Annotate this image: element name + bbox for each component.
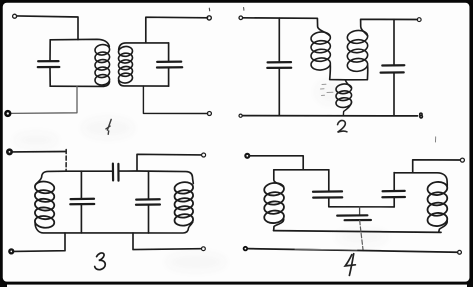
terminal T10 (circuit 3 output top) xyxy=(202,153,206,157)
graphite smudge near shunt coil xyxy=(321,84,334,95)
terminal T8 (circuit 2 output bottom, inked blob) xyxy=(420,113,423,118)
tank2 right branch lower xyxy=(168,68,170,86)
terminal T9 (circuit 3 input top) xyxy=(7,150,11,154)
capacitor C4 lead xyxy=(393,20,395,65)
coupling capacitor C5 plate2 xyxy=(117,164,119,181)
capacitor C6 plate2 xyxy=(70,203,94,205)
capacitor C1 plate2 xyxy=(38,66,60,68)
ground rail double-stroke xyxy=(295,248,357,251)
wire T10 down xyxy=(137,154,201,171)
tank4 common bottom edge xyxy=(274,231,441,233)
terminal T16 (circuit 4 output bottom) xyxy=(458,250,462,254)
terminal T2 (circuit 1 input bottom) xyxy=(5,111,10,116)
inductor L4 (series coil B) xyxy=(347,29,369,72)
capacitor C6 lead lower xyxy=(80,204,82,233)
terminal T15 (circuit 4 input bottom) xyxy=(244,247,248,251)
wire tank1 to bottom terminal xyxy=(11,86,77,113)
ink fleck above T5 xyxy=(243,8,245,11)
tank3 top edge left xyxy=(36,171,66,184)
wire tank3 to T12 xyxy=(133,233,201,250)
wire T13 to tank4a xyxy=(250,156,303,170)
capacitor C1 plate1 xyxy=(38,60,58,62)
ink fleck above T3 xyxy=(208,8,210,11)
capacitor C6 lead xyxy=(80,171,82,198)
tank1 left branch lower xyxy=(49,67,51,86)
circuit 4 ground rail xyxy=(247,249,457,253)
capacitor C9 plate2 xyxy=(382,196,405,198)
capacitor C4 lead lower xyxy=(393,73,395,116)
tank4b coil to bottom xyxy=(439,221,447,232)
capacitor C3 lead lower xyxy=(278,68,280,115)
wire T5 to coil LA xyxy=(243,18,330,36)
wire coilC to rail xyxy=(343,102,351,116)
capacitor C2 plate1 xyxy=(157,60,181,63)
tank4b top edge xyxy=(394,173,447,187)
faint scan wash marks xyxy=(14,80,388,271)
label 3 xyxy=(95,253,106,270)
label 1 xyxy=(106,119,111,134)
capacitor C9 lead lower xyxy=(393,198,395,207)
inductor L6 (tank3 left coil) xyxy=(34,181,55,229)
wire T6 to coil LB xyxy=(361,19,418,35)
capacitor C3 plate2 xyxy=(267,67,291,69)
terminal T4 (circuit 1 output bottom) xyxy=(207,112,211,116)
terminal T6 (circuit 2 output top) xyxy=(417,18,421,22)
inductor L8 (tank4a coil) xyxy=(264,182,285,224)
capacitor C4 plate2 xyxy=(381,71,404,73)
wire T1 to tank1 top xyxy=(17,16,78,40)
tank2 bottom edge xyxy=(119,80,169,86)
tank3 top edge right xyxy=(120,171,194,184)
wire T9 horizontal xyxy=(12,151,65,153)
inductor L3 (series coil A) xyxy=(310,31,331,71)
wire T14 to tank4b xyxy=(413,160,461,173)
capacitor C7 lead lower xyxy=(148,205,150,233)
terminal T11 (circuit 3 input bottom) xyxy=(9,249,13,253)
tank3 top edge mid xyxy=(66,170,112,172)
terminal T3 (circuit 1 output top) xyxy=(207,16,211,20)
capacitor C7 plate1 xyxy=(136,198,160,201)
tank1 left branch upper xyxy=(49,40,51,61)
capacitor C9 plate1 xyxy=(383,190,405,193)
capacitor C8 lead lower xyxy=(328,198,330,207)
circuit 2 ground rail xyxy=(243,115,418,117)
label 2 xyxy=(338,120,347,132)
wire coilB to tap xyxy=(345,66,367,80)
inductor L1 (tank1 coil) xyxy=(94,44,110,86)
tank2 right branch upper xyxy=(168,43,170,62)
capacitor C7 plate2 xyxy=(136,203,160,205)
terminal T13 (circuit 4 input top) xyxy=(245,154,249,158)
tank4a top edge xyxy=(274,169,329,171)
capacitor C8 lead xyxy=(328,170,330,192)
terminal T7 (circuit 2 input bottom) xyxy=(239,114,242,117)
inductor L2 (tank2 coil) xyxy=(118,46,133,84)
capacitor C2 plate2 xyxy=(157,66,182,68)
shunt coil entry xyxy=(345,80,351,88)
coupling capacitor C10 lead lower xyxy=(360,220,364,251)
capacitor C6 plate1 xyxy=(71,198,94,201)
wire T9 vertical jog (sketchy) xyxy=(65,150,67,172)
inductor L7 (tank3 right coil) xyxy=(174,181,194,226)
stray tick below rail xyxy=(435,137,437,142)
terminal T12 (circuit 3 output bottom) xyxy=(202,247,206,251)
capacitor C9 lead upper xyxy=(393,173,395,191)
coupling capacitor C5 plate1 xyxy=(112,164,114,181)
coupling capacitor C10 plate2 xyxy=(345,219,371,221)
tank1 top edge xyxy=(50,39,109,47)
capacitor C8 plate1 xyxy=(313,190,342,193)
tank4a coil to bottom xyxy=(274,219,284,231)
tank4a left branch xyxy=(274,170,284,187)
wire tank3 to T11 xyxy=(14,233,65,251)
coupling capacitor C10 lead xyxy=(359,207,361,215)
wire tank2 to bottom terminal xyxy=(143,86,207,113)
tank1 bottom edge xyxy=(50,82,109,87)
terminal T5 (circuit 2 input top) xyxy=(239,16,243,20)
capacitor C3 lead xyxy=(278,18,280,62)
capacitor C7 lead xyxy=(148,171,150,199)
capacitor C8 plate2 xyxy=(313,196,342,198)
wire T3 to tank2 top xyxy=(146,17,208,43)
tank3 bottom edge xyxy=(35,222,193,233)
terminal T1 (circuit 1 input top) xyxy=(13,14,17,18)
label 4 xyxy=(345,254,355,276)
coupling bus xyxy=(329,206,394,208)
wire coilA to tap xyxy=(330,65,346,80)
inductor L9 (tank4b coil) xyxy=(427,181,448,227)
inductor L5 (shunt coil to ground) xyxy=(336,83,353,108)
tank2 top edge xyxy=(119,43,169,50)
terminal T14 (circuit 4 output top) xyxy=(460,158,464,162)
coupling capacitor C10 plate1 xyxy=(337,214,367,217)
capacitor C3 plate1 xyxy=(268,61,291,64)
capacitor C4 plate1 xyxy=(382,64,404,67)
